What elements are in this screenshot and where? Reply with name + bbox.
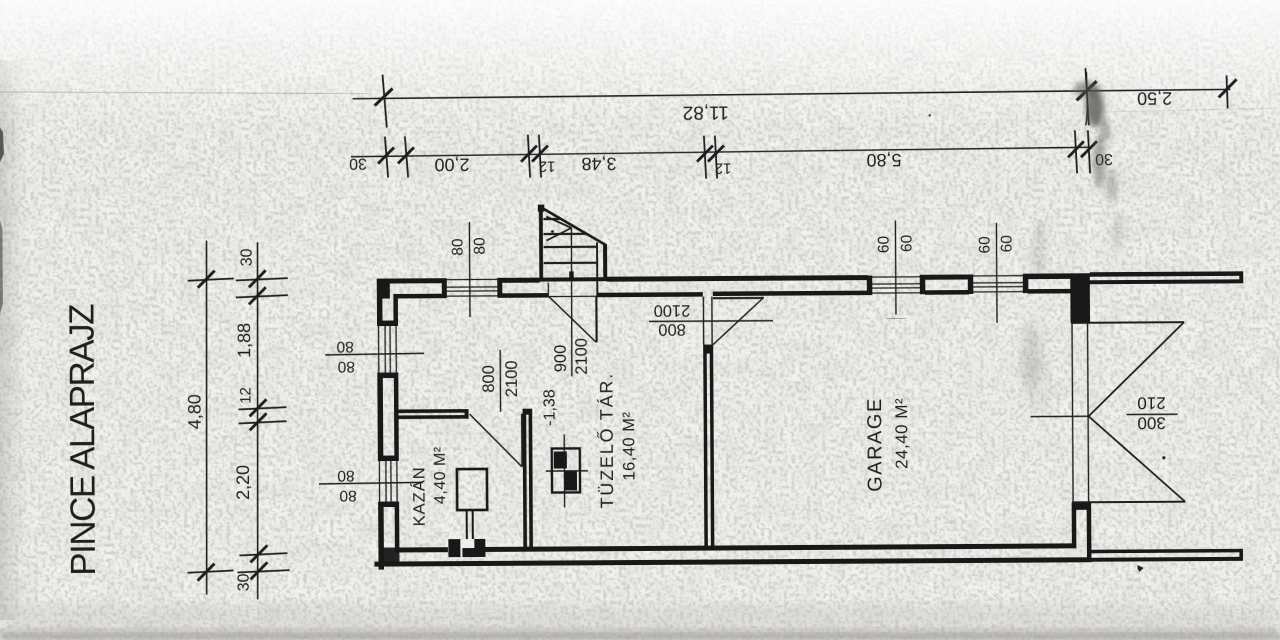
garage door label fraction line — [1127, 413, 1178, 415]
garage door opening thin jamb lines — [1072, 322, 1073, 502]
svg-text:1,88: 1,88 — [234, 323, 254, 358]
stair right outer face thick — [603, 244, 607, 278]
exterior wall: right (garage) jamb above door — [1070, 274, 1090, 323]
exterior wall: left inner line — [393, 294, 399, 548]
window W5 axis line — [319, 482, 423, 484]
kazan door D1 leaf — [521, 414, 524, 467]
window W5 end caps — [378, 455, 399, 461]
dimension line D vertical segments — [236, 242, 290, 599]
bottom shadow band — [0, 604, 1280, 640]
svg-text:60: 60 — [876, 235, 893, 253]
svg-text:60: 60 — [999, 235, 1016, 253]
top-left wall corner block — [377, 279, 390, 299]
svg-text:2,00: 2,00 — [434, 154, 469, 174]
svg-text:2100: 2100 — [572, 338, 590, 375]
chimney inner white notch — [460, 539, 474, 548]
stair left wall top blob — [538, 205, 545, 212]
exterior wall: bottom inner line — [395, 543, 1077, 552]
exterior wall: left outer line — [377, 279, 384, 570]
svg-text:60: 60 — [899, 234, 916, 252]
stair door jamb lines — [547, 283, 549, 298]
window W4 left wall thin lines — [379, 321, 397, 377]
garage door swing top edge — [1071, 321, 1184, 324]
passage door D2 label axis line — [649, 320, 773, 323]
window W5 left wall thin lines — [379, 456, 397, 506]
window W2 end caps — [867, 276, 873, 296]
passage door D2 leaf — [713, 297, 764, 300]
partition wall P1 kazan/tuzelo — [523, 409, 533, 549]
svg-text:80: 80 — [339, 487, 357, 504]
svg-text:80: 80 — [472, 237, 489, 255]
svg-text:300: 300 — [1137, 413, 1165, 432]
window W2 top wall thin lines — [868, 277, 925, 293]
garage door swing bottom edge — [1072, 501, 1185, 504]
kazan door D1 axis line — [499, 350, 501, 412]
apron slab top right — [1088, 271, 1244, 284]
window W1 axis line — [468, 222, 471, 317]
passage door D2 thin jamb lines — [702, 297, 704, 345]
svg-text:4,40 M²: 4,40 M² — [432, 446, 449, 504]
boiler — [457, 469, 487, 510]
svg-text:800: 800 — [658, 320, 686, 338]
svg-text:80: 80 — [450, 238, 467, 256]
stair direction arrowhead — [546, 216, 571, 228]
exterior wall: top outer line — [377, 273, 1090, 283]
svg-text:2,50: 2,50 — [1137, 88, 1172, 108]
svg-text:30: 30 — [349, 154, 367, 171]
partition wall kazan top (P1h) — [395, 409, 469, 419]
window W3 top wall thin lines — [969, 276, 1028, 292]
window W3 end caps — [968, 274, 974, 294]
garage door swing lower diagonal — [1089, 416, 1186, 503]
svg-text:80: 80 — [336, 338, 354, 355]
left edge darkening — [0, 60, 26, 620]
svg-text:3,48: 3,48 — [581, 153, 616, 173]
svg-text:5,80: 5,80 — [866, 150, 901, 170]
top bright strip — [0, 0, 1280, 130]
svg-text:KAZÁN: KAZÁN — [409, 466, 428, 526]
svg-text:24,40 M²: 24,40 M² — [892, 398, 911, 469]
smudge near garage corner — [1021, 328, 1049, 408]
window W2 axis line — [894, 220, 897, 314]
svg-text:80: 80 — [337, 358, 355, 375]
svg-text:-1,38: -1,38 — [542, 389, 559, 426]
svg-text:PINCE ALAPRAJZ: PINCE ALAPRAJZ — [62, 304, 103, 576]
dimension line B segments — [351, 72, 1098, 181]
svg-text:4,80: 4,80 — [184, 394, 204, 429]
bottom-left wall corner — [378, 547, 399, 566]
garage right wall jamb below door — [1072, 502, 1092, 510]
photocopier smudge right of 5,80 — [1020, 81, 1124, 393]
svg-text:210: 210 — [1137, 393, 1165, 412]
svg-text:2,20: 2,20 — [233, 465, 253, 500]
svg-text:12: 12 — [237, 387, 254, 404]
svg-text:30: 30 — [239, 248, 256, 266]
svg-text:900: 900 — [552, 345, 570, 373]
window W4 end caps — [377, 320, 398, 326]
svg-text:TÜZELŐ TÁR.: TÜZELŐ TÁR. — [596, 372, 617, 509]
svg-text:12: 12 — [539, 158, 556, 175]
stair right inner face — [596, 242, 598, 297]
stair door leaf — [595, 296, 597, 342]
garage door swing upper diagonal — [1088, 322, 1185, 416]
passage door D2 swing line — [713, 298, 763, 344]
stair walking line / door axis — [571, 227, 572, 376]
window W3 axis line — [995, 223, 998, 323]
stair treads — [543, 219, 597, 263]
window W1 end caps — [442, 278, 447, 298]
garage door axis line — [1031, 415, 1089, 417]
stair left wall — [539, 206, 543, 278]
svg-text:16,40 M²: 16,40 M² — [620, 411, 638, 480]
svg-text:30: 30 — [236, 573, 253, 591]
chimney small square — [464, 549, 472, 556]
garage right wall below door double lines — [1072, 509, 1077, 543]
svg-text:80: 80 — [337, 467, 355, 484]
dimension line A overall 11,82 — [352, 67, 1236, 129]
exterior wall: top inner line — [394, 289, 1075, 299]
kazan door D1 swing line — [470, 414, 522, 467]
window W1 top wall thin lines — [443, 279, 502, 296]
svg-text:11,82: 11,82 — [683, 101, 729, 122]
apron slab bottom right — [1091, 549, 1243, 562]
passage door D2 label 800/2100 — [654, 301, 691, 338]
stair door swing line — [549, 296, 596, 342]
svg-text:800: 800 — [480, 365, 498, 393]
window W4 axis line — [325, 353, 424, 355]
faint guide line top-left — [0, 90, 369, 96]
chimney block — [448, 539, 485, 557]
svg-text:GARAGE: GARAGE — [864, 397, 887, 492]
walking line step marker — [569, 271, 574, 281]
stair top diagonal edge — [540, 206, 606, 245]
ink specks — [550, 112, 1166, 575]
svg-text:12: 12 — [715, 159, 732, 176]
svg-text:2100: 2100 — [654, 301, 691, 319]
faint guide line top-right — [1094, 108, 1279, 112]
stray pencil dash — [886, 317, 906, 319]
svg-text:60: 60 — [977, 236, 994, 254]
left edge artifacts — [0, 126, 5, 314]
garage door label 300/210 — [1137, 393, 1166, 432]
exterior wall: bottom outer line — [374, 557, 1091, 566]
partition wall P2 tuzelo/garage — [703, 345, 714, 546]
boiler flue stem — [466, 510, 468, 542]
svg-text:2100: 2100 — [503, 360, 521, 397]
shaft symbol in tuzelo ter — [546, 434, 588, 507]
dimension line C vertical 4,80 — [186, 240, 236, 594]
